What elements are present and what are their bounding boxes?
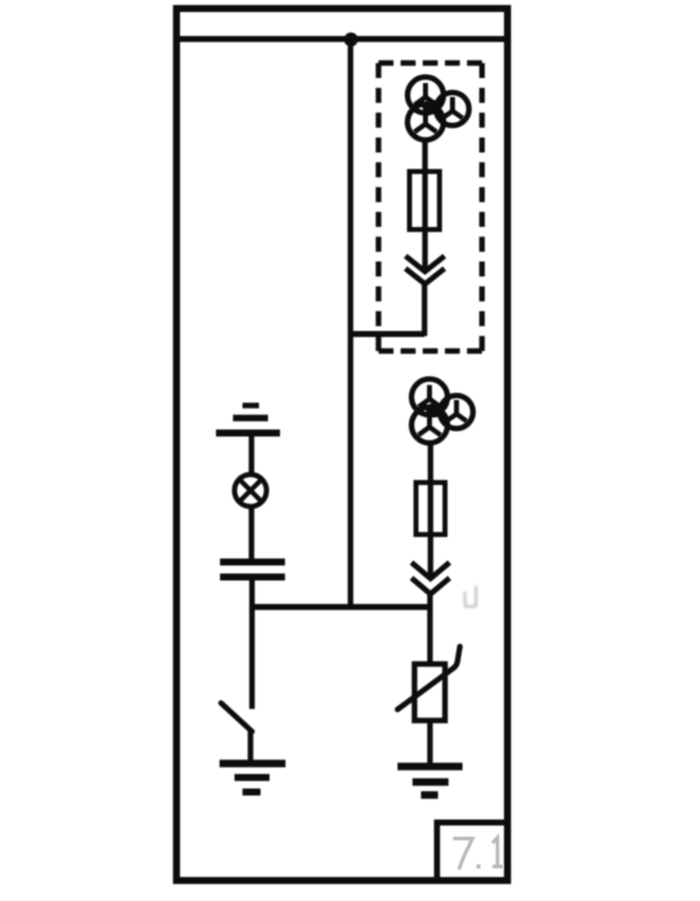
wire arrow to surge arrester bbox=[427, 593, 433, 666]
withdrawable contact arrow (double chevron) branch 1 bbox=[406, 256, 445, 284]
busbar bbox=[180, 36, 504, 42]
wire blade to ground bbox=[248, 729, 254, 763]
wire antenna to lamp bbox=[249, 433, 255, 476]
node junction dot on busbar bbox=[344, 33, 358, 47]
label 7.1 (faint) bbox=[453, 838, 503, 870]
earthing switch blade bbox=[221, 703, 252, 732]
voltage transformer VT2 (three windings) bbox=[412, 379, 474, 443]
withdrawable contact arrow (double chevron) branch 2 bbox=[412, 563, 450, 595]
wire main vertical riser bbox=[348, 39, 354, 610]
wire arrester to ground bbox=[427, 719, 433, 766]
capacitive voltage indicator antenna plates bbox=[216, 406, 280, 434]
drawing number box 7.1 bbox=[437, 823, 508, 881]
fuse F2 bbox=[416, 483, 445, 535]
wire VT1 to fuse bbox=[422, 139, 428, 272]
dashed withdrawable metering compartment boundary bbox=[379, 63, 483, 351]
wire VT2 to fuse bbox=[428, 441, 434, 580]
ground symbol left bbox=[220, 764, 286, 793]
ground symbol right bbox=[398, 767, 463, 796]
surge arrester (varistor) bbox=[398, 647, 460, 721]
wire connector riser to VT branch bbox=[348, 331, 425, 337]
label U (faint) bbox=[465, 586, 476, 607]
capacitor C1 (voltage divider) bbox=[220, 562, 285, 577]
wire arrow to connector bbox=[422, 283, 428, 336]
indicator lamp (circle with X) bbox=[235, 475, 267, 507]
wire lamp to capacitor bbox=[249, 506, 255, 560]
voltage transformer VT1 (three windings) bbox=[408, 77, 470, 140]
wire horizontal link bbox=[252, 604, 430, 610]
wire capacitor down to earthing switch bbox=[249, 578, 255, 709]
panel enclosure outline bbox=[177, 9, 508, 881]
fuse F1 bbox=[410, 172, 440, 230]
